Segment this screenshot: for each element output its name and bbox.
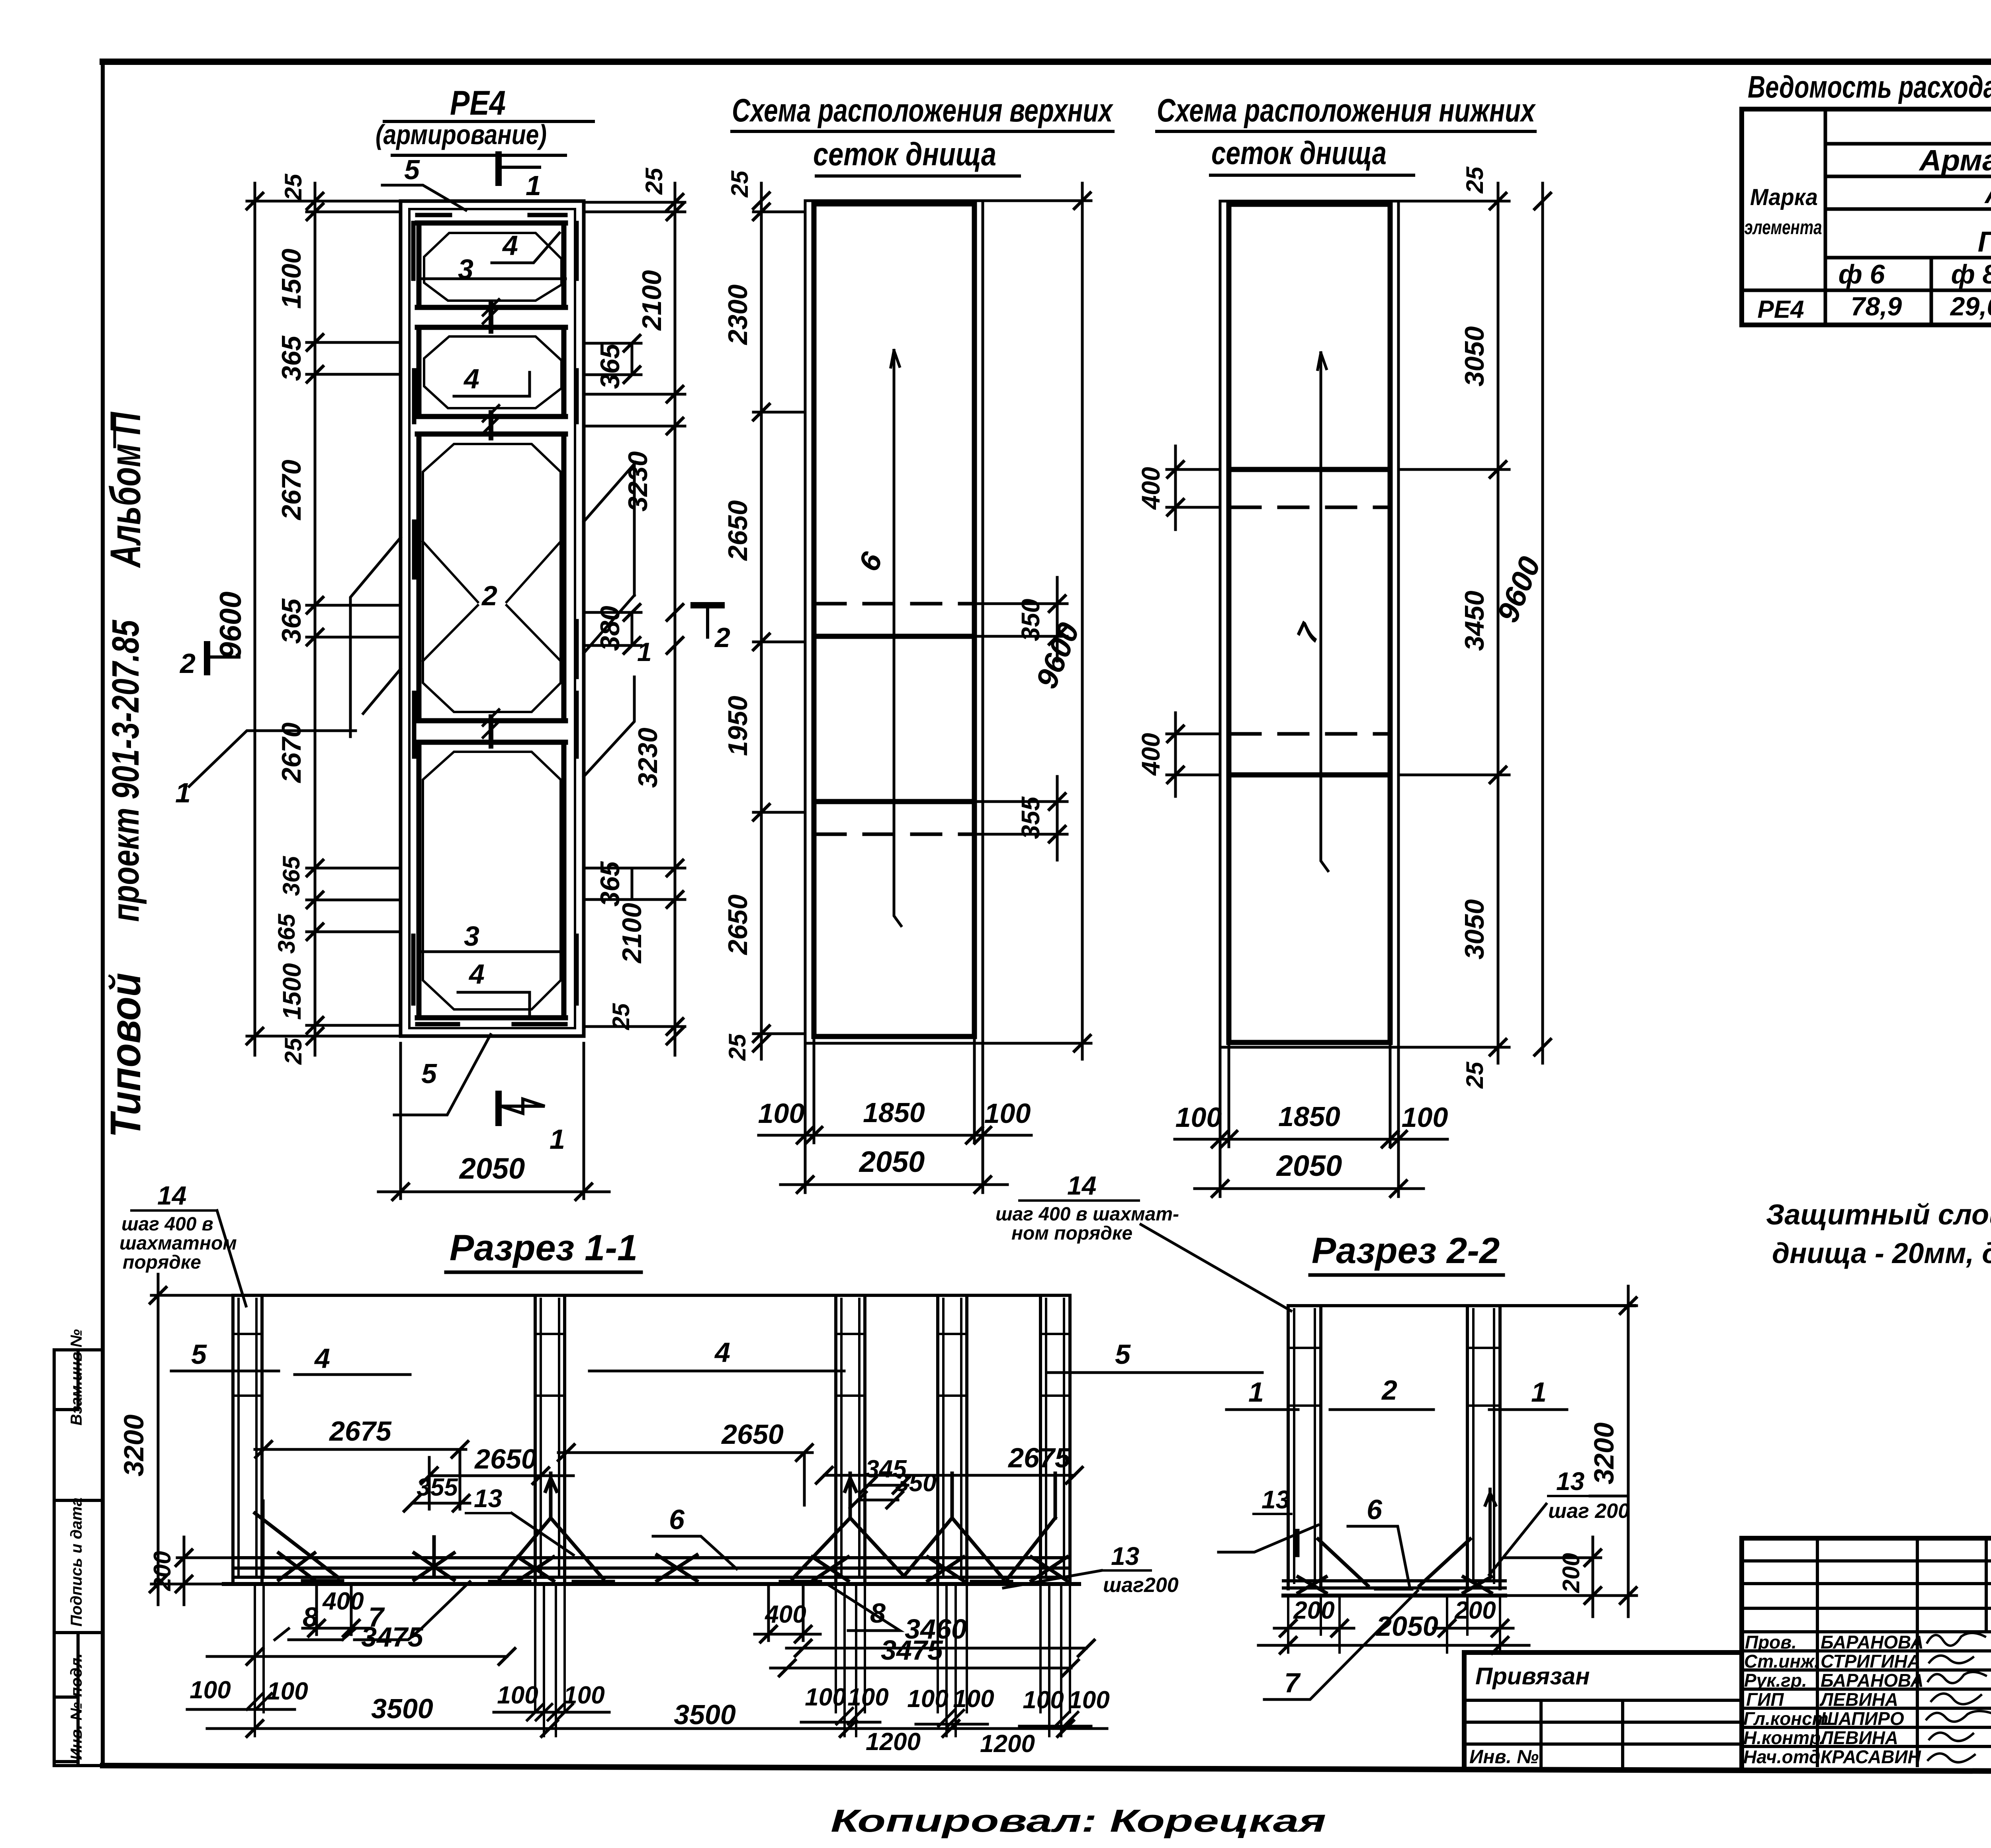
dim 355 [412,1502,470,1505]
wing mark left [350,538,401,737]
svg-text:2050: 2050 [859,1145,925,1178]
svg-text:3450: 3450 [1459,591,1490,651]
svg-text:2050: 2050 [1276,1149,1342,1182]
svg-text:365: 365 [278,855,305,896]
svg-text:2650: 2650 [723,894,753,955]
PLAN-TOP-MESH [723,92,1114,1193]
bent bars W5 [1007,1473,1067,1581]
svg-text:Альбом П: Альбом П [101,411,149,568]
svg-text:3475: 3475 [361,1621,424,1652]
top line [233,1294,1070,1297]
svg-text:25: 25 [280,1037,307,1065]
svg-text:100: 100 [190,1676,231,1704]
svg-text:БАРАНОВА: БАРАНОВА [1821,1632,1924,1652]
svg-text:2650: 2650 [723,500,753,561]
title underline [446,1271,641,1274]
svg-text:14: 14 [1067,1171,1096,1200]
svg-text:2: 2 [1381,1375,1397,1406]
outer rect [805,201,983,1043]
right outer chain [584,183,685,1055]
svg-text:100: 100 [1068,1686,1109,1714]
svg-text:350: 350 [895,1469,936,1497]
bent bar left hook [1295,1531,1300,1555]
svg-text:2675: 2675 [1007,1442,1071,1473]
bent bar right vertical [1485,1489,1496,1577]
svg-text:Инв. №-подл.: Инв. №-подл. [68,1653,85,1760]
svg-text:200: 200 [1454,1597,1496,1624]
svg-text:Ведомость расхода стали на эл: Ведомость расхода стали на элемент, кг [1748,69,1991,104]
right dim 9600 [983,183,1091,1059]
PLAN-BOT-MESH [1136,92,1551,1197]
svg-text:1: 1 [1248,1377,1264,1408]
svg-text:13: 13 [1111,1542,1139,1570]
svg-text:1: 1 [637,637,652,667]
svg-text:ШАПИРО: ШАПИРО [1821,1708,1904,1729]
svg-text:ЛЕВИНА: ЛЕВИНА [1819,1727,1898,1748]
dim 2050 bottom [378,1043,609,1199]
wing mark right [584,464,634,776]
svg-text:13: 13 [1261,1485,1290,1514]
svg-text:100: 100 [758,1098,805,1129]
svg-text:ЛЕВИНА: ЛЕВИНА [1819,1689,1898,1710]
svg-text:РЕ4: РЕ4 [450,84,506,122]
page bottom border [103,1766,1991,1773]
X mark mid1 [414,1537,454,1580]
dim 3460 [786,1647,1086,1650]
svg-text:3230: 3230 [623,451,653,511]
bottom dim row1 [1175,1042,1447,1147]
svg-text:Инв. №: Инв. № [1469,1746,1539,1768]
dim 2650 right [558,1453,812,1505]
mesh bold line a [814,634,974,639]
title underline 2 [816,174,1019,178]
section mark 2 right [694,602,722,608]
dim 100 ticks [187,1694,1091,1728]
dim 200 right [1505,1537,1601,1617]
svg-text:2300: 2300 [723,284,753,345]
svg-text:2670: 2670 [276,722,307,783]
corner bars bottom [413,936,577,1024]
svg-text:днища - 20мм, для нижней -36мм: днища - 20мм, для нижней -36мм, для стен… [1772,1238,1991,1269]
svg-text:проект 901-3-207.85: проект 901-3-207.85 [104,620,147,922]
right chain [1398,183,1509,1063]
svg-text:3500: 3500 [674,1699,736,1730]
bent bars W4 [904,1473,1011,1582]
title underline [1310,1273,1503,1277]
svg-text:14: 14 [157,1181,186,1210]
svg-text:200: 200 [149,1551,176,1591]
svg-text:(армирование): (армирование) [376,119,547,150]
svg-text:ГОСТ 5781-82: ГОСТ 5781-82 [1978,226,1991,258]
panel P1 mesh [417,223,565,307]
dim 3200 [1500,1286,1637,1617]
svg-text:9600: 9600 [214,591,248,659]
mesh bold line b [1229,772,1390,778]
svg-text:365: 365 [595,343,625,389]
svg-text:25: 25 [1461,166,1488,194]
svg-text:78,9: 78,9 [1851,291,1902,321]
svg-text:25: 25 [641,167,667,195]
svg-text:А-I: А-I [1984,179,1991,209]
dashed line b [1231,732,1390,736]
svg-text:ф 6: ф 6 [1838,259,1885,289]
svg-text:5: 5 [404,154,420,185]
svg-text:РЕ4: РЕ4 [1757,296,1804,323]
title underline 1 [732,130,1113,133]
svg-text:100: 100 [563,1682,604,1709]
svg-text:шаг 400 в: шаг 400 в [121,1214,213,1235]
dim 3500 row [207,1727,1107,1730]
center arrow [891,350,901,926]
outer rect [1220,201,1398,1047]
svg-text:400: 400 [764,1601,806,1628]
NOTE-TEXT [1766,1199,1991,1269]
svg-text:1: 1 [550,1124,565,1155]
steel table horizontals [1742,144,1991,290]
dim 400 right [755,1587,820,1641]
title underline 2 [392,154,565,157]
mesh bold rect [1229,204,1390,1042]
svg-text:3050: 3050 [1459,899,1490,959]
panel P3 mesh [417,434,565,721]
dashed line b [816,833,974,836]
svg-text:Схема расположения нижних: Схема расположения нижних [1157,92,1536,129]
svg-text:2: 2 [179,648,196,679]
panel P4 mesh [417,742,565,1018]
svg-text:365: 365 [273,913,300,954]
panel P3 octagon [423,444,561,712]
wall W4 [938,1295,967,1583]
svg-text:шаг 400 в шахмат-: шаг 400 в шахмат- [995,1204,1179,1225]
svg-text:400: 400 [322,1588,364,1615]
svg-text:2670: 2670 [276,460,307,520]
svg-text:3050: 3050 [1459,326,1490,386]
svg-text:1200: 1200 [980,1730,1035,1758]
right small dim 350 [974,577,1067,661]
panel P4 octagon [423,752,561,1009]
svg-text:сеток днища: сеток днища [1211,135,1387,171]
svg-text:3: 3 [464,921,479,952]
below-slab verticals [255,1584,1070,1736]
svg-text:355: 355 [417,1474,458,1501]
svg-text:200: 200 [1293,1597,1334,1624]
svg-text:25: 25 [1461,1061,1488,1089]
svg-text:100: 100 [1175,1102,1222,1133]
svg-text:Пров.: Пров. [1745,1632,1797,1652]
margin album overline [113,415,116,447]
panel P2 mesh [417,327,565,417]
svg-text:1: 1 [175,777,191,808]
side lap bars [414,370,577,757]
bent bar left [1298,1539,1412,1593]
panel P4 mid line [422,950,563,953]
right small dim 355 [974,776,1067,860]
svg-text:3230: 3230 [633,727,663,788]
dim 2650 left [429,1457,573,1509]
svg-text:БАРАНОВА: БАРАНОВА [1821,1670,1924,1691]
svg-text:100: 100 [497,1682,538,1709]
dashed line a [1231,506,1390,509]
svg-text:100: 100 [847,1684,888,1711]
PLAN-PE4 [175,84,730,1200]
wall W1 [233,1295,262,1583]
svg-text:1: 1 [1531,1377,1547,1408]
svg-text:Нач.отд.: Нач.отд. [1743,1746,1825,1767]
svg-text:25: 25 [280,173,307,201]
svg-text:Марка: Марка [1750,184,1818,210]
panel P2 octagon [424,336,561,408]
left dim 400 a [1167,446,1220,530]
dim 3200 left [151,1274,233,1605]
right outer chain ticks [667,194,683,1044]
svg-text:200: 200 [1558,1553,1584,1593]
privyazan block frame [1464,1652,1742,1766]
svg-text:365: 365 [276,598,307,644]
left chain ticks [753,193,769,1051]
wall W3 [836,1295,865,1583]
dim 2050 bottom [1258,1644,1529,1647]
dim 3475 left [207,1655,507,1658]
svg-text:КРАСАВИН: КРАСАВИН [1821,1746,1921,1767]
svg-text:2100: 2100 [617,903,647,964]
leader 14 left [217,1210,246,1306]
dim 200 left [177,1537,233,1605]
signatures [1926,1633,1991,1762]
svg-text:100: 100 [907,1685,948,1713]
outer wall inner line [409,209,575,1028]
svg-text:Привязан: Привязан [1475,1663,1590,1690]
svg-text:350: 350 [1016,599,1045,641]
svg-text:2100: 2100 [637,270,667,331]
mesh bold line b [814,799,974,804]
title underline 1 [384,120,593,123]
TABLE-STEEL [1742,69,1991,325]
dim 2675 left [255,1449,466,1509]
wall W5 [1040,1295,1070,1583]
svg-text:Разрез 2-2: Разрез 2-2 [1312,1230,1500,1271]
svg-text:400: 400 [1136,467,1165,510]
svg-text:2650: 2650 [474,1443,537,1474]
dim 3475 right [771,1667,1071,1670]
dim 345 [868,1484,908,1487]
svg-text:100: 100 [267,1678,308,1705]
svg-text:1200: 1200 [866,1728,921,1756]
svg-text:4: 4 [463,363,479,394]
right inner chain 365-380 [584,343,641,900]
bent bar right [1420,1539,1491,1593]
svg-text:Гл.конст: Гл.конст [1743,1708,1829,1729]
left outer dim 9600 [247,183,401,1055]
svg-text:2675: 2675 [329,1416,392,1447]
svg-text:29,0: 29,0 [1950,291,1991,321]
svg-text:355: 355 [1016,796,1045,839]
svg-text:Копировал: Корецкая: Копировал: Корецкая [831,1803,1326,1838]
svg-text:шаг 200: шаг 200 [1548,1500,1629,1523]
svg-text:1500: 1500 [278,963,306,1020]
SECTION-2-2 [1218,1230,1637,1699]
svg-text:3200: 3200 [118,1414,149,1476]
svg-text:2650: 2650 [721,1419,784,1450]
top line [1288,1304,1635,1307]
outer wall rect [401,201,584,1036]
corner bars top [413,215,577,279]
left inner chain ticks [307,193,323,1044]
svg-text:ф 8: ф 8 [1951,259,1991,289]
svg-text:Схема расположения верхних: Схема расположения верхних [732,92,1114,129]
svg-text:4: 4 [468,958,485,990]
svg-text:4: 4 [314,1343,330,1374]
svg-text:5: 5 [191,1339,207,1370]
dim 200 bottom right [1434,1627,1513,1630]
wall W2 [535,1295,565,1583]
svg-text:ном порядке: ном порядке [1011,1223,1132,1244]
svg-text:1850: 1850 [863,1097,925,1128]
right chain ticks [1490,193,1506,1055]
SECTION-1-1 [118,1171,1291,1758]
svg-text:365: 365 [276,335,307,381]
svg-text:3475: 3475 [881,1635,943,1666]
svg-text:сеток днища: сеток днища [813,136,996,172]
svg-text:Взам.инв.№: Взам.инв.№ [68,1329,85,1426]
svg-text:2: 2 [481,580,497,611]
mesh bold line a [1229,467,1390,472]
svg-text:3: 3 [458,254,473,285]
dim 350 [858,1499,898,1502]
svg-text:шаг200: шаг200 [1103,1574,1179,1597]
inter-panel tick marks [483,299,499,737]
svg-text:7: 7 [1284,1667,1301,1698]
svg-text:элемента: элемента [1745,216,1822,239]
svg-text:13: 13 [474,1484,502,1513]
page left border [101,62,105,1766]
bottom dim row1 [759,1036,1031,1143]
wall R [1467,1306,1500,1589]
svg-text:Н.контр.: Н.контр. [1743,1727,1826,1748]
svg-text:6: 6 [1367,1494,1383,1525]
signature table frame [1742,1538,1991,1766]
stamp boxes left bottom [54,1350,103,1766]
svg-text:100: 100 [805,1684,846,1711]
svg-text:4: 4 [502,230,518,261]
svg-text:Рук.гр.: Рук.гр. [1744,1670,1807,1691]
svg-text:100: 100 [1023,1686,1064,1714]
svg-text:1850: 1850 [1278,1101,1340,1132]
below verticals [1288,1596,1500,1652]
left dim 400 b [1167,713,1220,796]
svg-text:380: 380 [595,606,625,651]
title underline 2 [1211,174,1414,177]
svg-text:25: 25 [608,1003,634,1030]
svg-text:2: 2 [714,622,730,653]
inter-panel ties [489,303,493,746]
bent bars W3 [780,1473,904,1582]
title underline 1 [1157,130,1535,133]
svg-text:400: 400 [1136,733,1165,776]
svg-text:6: 6 [669,1504,685,1535]
svg-text:100: 100 [953,1685,994,1713]
panel P3 diagonals [423,542,561,661]
svg-text:5: 5 [421,1058,437,1089]
svg-text:2050: 2050 [459,1152,525,1185]
bent bars W1 [255,1501,342,1581]
svg-text:СТРИГИНА: СТРИГИНА [1821,1651,1921,1672]
TITLE-BLOCK [831,1538,1991,1840]
svg-text:5: 5 [1115,1339,1131,1370]
dim 200 bottom left [1274,1627,1354,1630]
svg-text:Защитный слой бетона для верх: Защитный слой бетона для верхней арматур… [1766,1199,1991,1231]
slab lines [233,1558,1070,1577]
slab lines [1283,1581,1505,1588]
svg-text:13: 13 [1556,1467,1584,1496]
page top border [103,59,1991,65]
svg-text:Разрез 1-1: Разрез 1-1 [450,1228,638,1268]
svg-text:4: 4 [714,1337,730,1368]
svg-text:Подпись и дата: Подпись и дата [68,1498,85,1627]
center arrow [1318,353,1328,871]
svg-text:100: 100 [1402,1102,1448,1133]
dashed line a [816,602,974,606]
section mark 1 top [495,154,502,183]
svg-text:3500: 3500 [371,1693,433,1724]
svg-text:100: 100 [984,1098,1031,1129]
panel P1 octagon [424,233,561,301]
svg-text:1950: 1950 [723,696,753,756]
svg-text:3200: 3200 [1588,1422,1619,1484]
svg-text:365: 365 [595,861,625,907]
dim 2675 right [824,1474,1074,1477]
svg-text:шахматном: шахматном [119,1233,237,1254]
mesh bold rect [814,204,974,1036]
panel P1 mid line [422,278,565,280]
svg-text:25: 25 [726,170,753,198]
X mark mid2 [657,1555,697,1581]
left chain [753,183,805,1059]
svg-text:1: 1 [526,170,541,201]
svg-text:ГИП: ГИП [1746,1689,1784,1710]
bottom dim row2 [1195,1147,1424,1197]
leader 14 right [1141,1224,1291,1311]
svg-text:25: 25 [724,1033,751,1061]
section mark 1 bottom [495,1094,502,1123]
svg-text:2050: 2050 [1375,1611,1438,1642]
bent bars W2 [490,1473,613,1582]
svg-text:Типовой: Типовой [101,973,149,1138]
svg-text:Арматура класса: Арматура класса [1919,144,1991,177]
left inner chain [307,183,401,1055]
wall L [1288,1306,1321,1589]
dim 400 left [303,1587,370,1635]
svg-text:1500: 1500 [276,248,307,309]
right dim 9600 [1541,183,1544,1063]
steel table outer [1742,109,1991,325]
steel table verticals [1825,109,1991,325]
svg-text:порядке: порядке [123,1252,201,1273]
bottom dim row2 [780,1143,1007,1193]
svg-text:Ст.инж.: Ст.инж. [1744,1651,1819,1672]
